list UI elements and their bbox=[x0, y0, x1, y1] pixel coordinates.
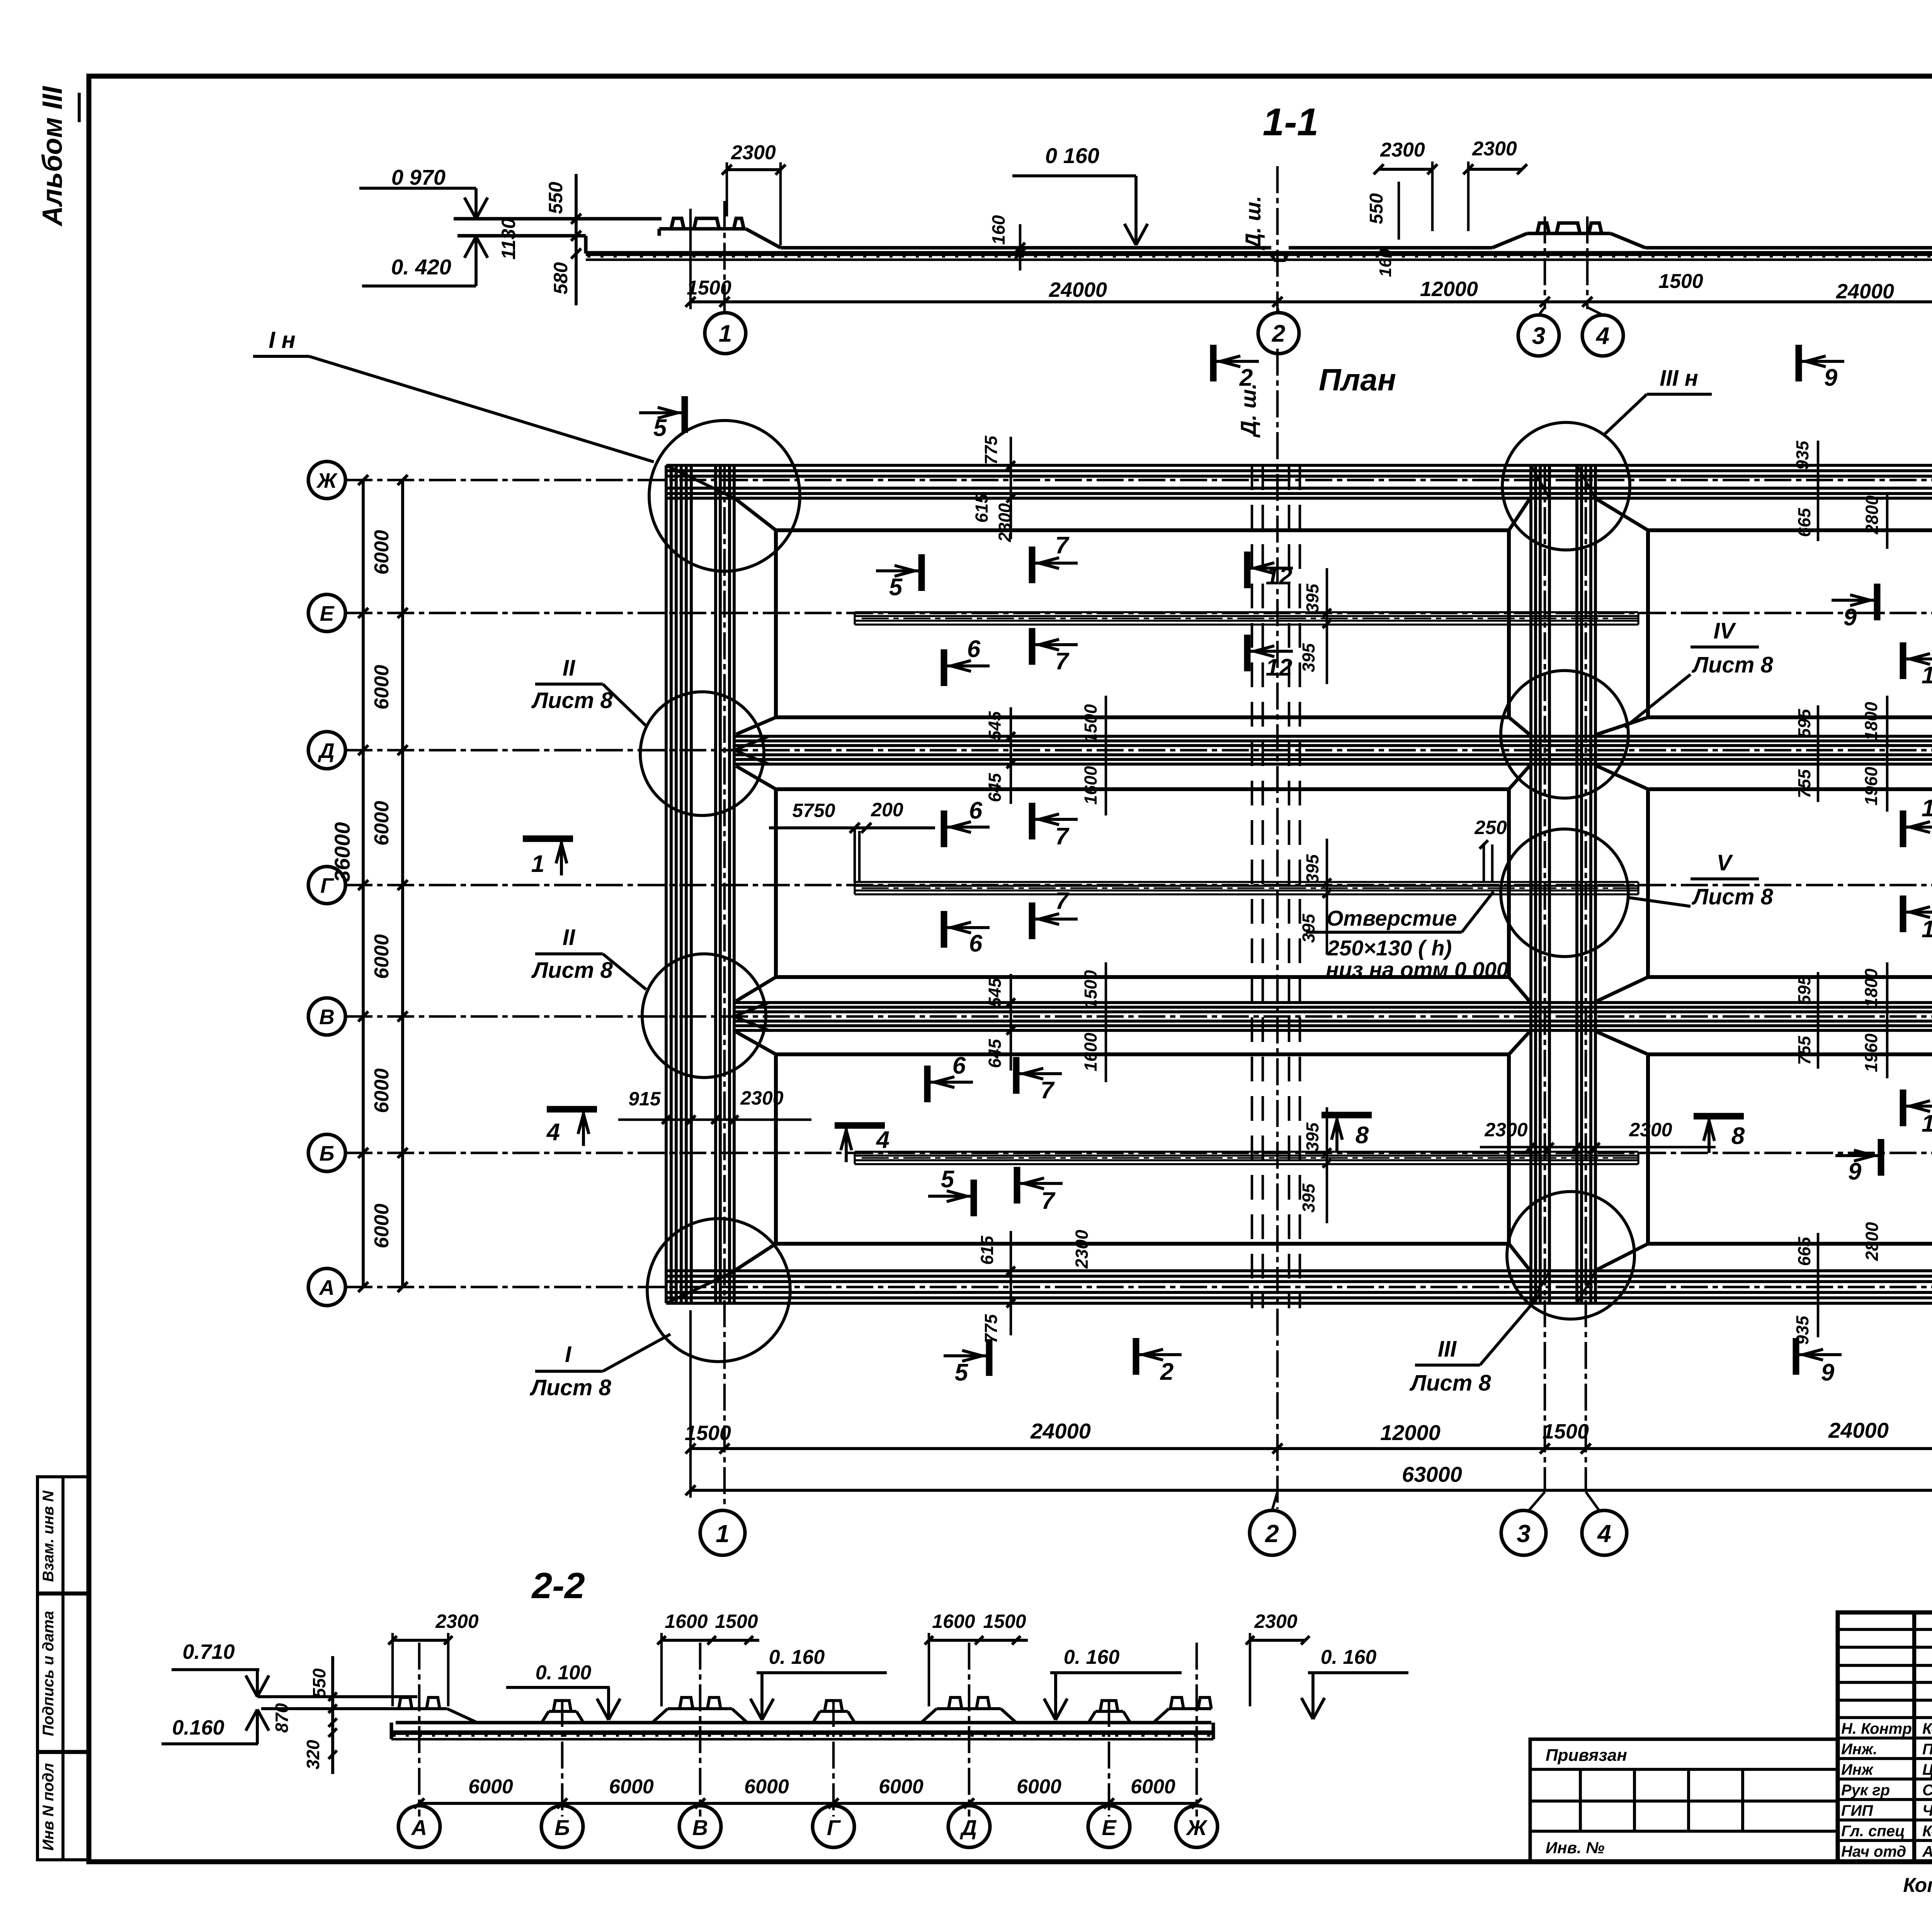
section mark 6 below partition E bbox=[941, 649, 947, 686]
svg-text:III н: III н bbox=[1660, 366, 1698, 391]
internal wall band row Д bbox=[734, 735, 1932, 738]
svg-text:395: 395 bbox=[1303, 1122, 1322, 1151]
svg-text:Альбом III: Альбом III bbox=[37, 85, 68, 226]
dim chain left 550 1130 580 bbox=[575, 174, 578, 305]
svg-text:0. 160: 0. 160 bbox=[769, 1646, 825, 1668]
detail circle node III bottom joint bbox=[1507, 1192, 1634, 1319]
chamber corridor 1 (Ж-Д left block) bbox=[776, 530, 1509, 717]
section 1-1 axis lines bbox=[723, 201, 726, 313]
svg-text:6000: 6000 bbox=[371, 1204, 393, 1248]
svg-text:Нач отд: Нач отд bbox=[1841, 1843, 1906, 1860]
settling tank chamber 3 (В-А right block) bbox=[1648, 1054, 1932, 1244]
svg-text:6000: 6000 bbox=[879, 1776, 923, 1798]
settling tank chamber 1 (Ж-Д right block) bbox=[1648, 530, 1932, 717]
svg-text:24000: 24000 bbox=[1828, 1418, 1889, 1442]
title block signature rows bbox=[1838, 1716, 1932, 1719]
svg-text:5750: 5750 bbox=[792, 800, 835, 821]
svg-text:Лист 8: Лист 8 bbox=[529, 1375, 611, 1400]
section 2-2 left level lines bbox=[257, 1695, 417, 1698]
corridor partition wall row Е bbox=[855, 611, 1638, 613]
section 1-1 floor slab bbox=[586, 251, 1932, 256]
profile at axis Б bbox=[542, 1711, 549, 1723]
svg-text:6000: 6000 bbox=[371, 530, 393, 575]
svg-text:615: 615 bbox=[972, 493, 992, 523]
svg-text:5: 5 bbox=[955, 1359, 969, 1386]
left outer wall band bbox=[665, 465, 668, 1303]
svg-text:1800: 1800 bbox=[1861, 702, 1881, 741]
section mark 5 bottom bbox=[986, 1339, 993, 1376]
svg-text:Инж.: Инж. bbox=[1841, 1741, 1878, 1758]
svg-text:II: II bbox=[563, 655, 576, 681]
svg-text:1500: 1500 bbox=[1081, 704, 1100, 743]
svg-text:775: 775 bbox=[981, 1314, 1001, 1343]
taper of wall В into left wall bbox=[734, 1003, 769, 1016]
svg-text:1130: 1130 bbox=[498, 218, 519, 260]
axis bubble 4 plan bbox=[1582, 1510, 1627, 1555]
chamber corridor 3 (В-А left block) bbox=[776, 1054, 1509, 1244]
svg-text:595: 595 bbox=[1794, 975, 1814, 1004]
svg-text:0. 160: 0. 160 bbox=[1064, 1646, 1120, 1668]
svg-text:550: 550 bbox=[545, 182, 566, 214]
svg-text:Инв N подл: Инв N подл bbox=[40, 1763, 57, 1851]
svg-text:В: В bbox=[319, 1005, 335, 1029]
svg-text:0.160: 0.160 bbox=[172, 1716, 224, 1739]
section mark 5 top bbox=[682, 396, 688, 433]
svg-text:935: 935 bbox=[1793, 440, 1812, 470]
svg-text:12: 12 bbox=[1266, 654, 1293, 681]
svg-text:665: 665 bbox=[1794, 1236, 1814, 1266]
svg-text:2300: 2300 bbox=[1072, 1230, 1092, 1269]
profile at axis Д bbox=[921, 1709, 937, 1723]
plan bottom dim line 1500 24000 12000 1500 24000 bbox=[690, 1447, 1932, 1450]
svg-text:1500: 1500 bbox=[687, 277, 731, 299]
svg-text:935: 935 bbox=[1793, 1315, 1812, 1345]
section mark 12 lower bbox=[1244, 635, 1251, 671]
profile at axis Ж bbox=[1153, 1709, 1169, 1723]
svg-text:2300: 2300 bbox=[1629, 1119, 1672, 1141]
svg-text:0. 160: 0. 160 bbox=[1321, 1646, 1377, 1668]
axis bubble 3 section bbox=[1518, 315, 1559, 356]
section mark 12 upper bbox=[1244, 552, 1251, 588]
svg-text:Инв. №: Инв. № bbox=[1546, 1839, 1604, 1857]
svg-text:IV: IV bbox=[1714, 618, 1736, 644]
svg-text:63000: 63000 bbox=[1402, 1462, 1462, 1486]
svg-text:Лист 8: Лист 8 bbox=[531, 958, 613, 983]
svg-text:8: 8 bbox=[1355, 1122, 1369, 1149]
corridor partition wall row Б bbox=[855, 1151, 1638, 1153]
section mark 9 bottom bbox=[1793, 1338, 1799, 1375]
section 2-2 slab bbox=[396, 1721, 1211, 1724]
svg-text:2: 2 bbox=[1272, 320, 1285, 347]
section mark 11 chamber 4 bbox=[1900, 642, 1906, 679]
svg-text:Ж: Ж bbox=[316, 468, 338, 492]
section mark 9 chamber 4 bbox=[1874, 584, 1881, 620]
svg-text:8: 8 bbox=[1731, 1123, 1745, 1149]
plan bottom dim line 63000 bbox=[690, 1489, 1932, 1492]
svg-text:2: 2 bbox=[1265, 1520, 1279, 1548]
profile at axis В bbox=[652, 1709, 668, 1723]
svg-text:645: 645 bbox=[985, 773, 1005, 802]
svg-text:3: 3 bbox=[1517, 1520, 1531, 1548]
svg-text:9: 9 bbox=[1824, 364, 1838, 391]
detail circle node II at row В left bbox=[642, 954, 766, 1078]
svg-text:6000: 6000 bbox=[371, 801, 393, 846]
svg-text:1: 1 bbox=[531, 851, 544, 877]
section mark 5 chamber 1 bbox=[918, 554, 925, 591]
deformation joint dashed lines bbox=[1251, 465, 1253, 1308]
svg-text:395: 395 bbox=[1299, 643, 1318, 672]
svg-text:6000: 6000 bbox=[609, 1776, 654, 1798]
extension lines plan bottom bbox=[689, 1310, 692, 1498]
section mark 1 left bbox=[523, 836, 573, 842]
svg-text:550: 550 bbox=[309, 1668, 329, 1698]
svg-text:6000: 6000 bbox=[1017, 1776, 1061, 1798]
svg-text:1500: 1500 bbox=[1081, 970, 1100, 1009]
svg-text:2300: 2300 bbox=[731, 141, 776, 164]
svg-text:7: 7 bbox=[1055, 888, 1070, 914]
svg-text:24000: 24000 bbox=[1049, 278, 1107, 301]
svg-text:Семенова: Семенова bbox=[1922, 1782, 1932, 1799]
svg-text:9: 9 bbox=[1848, 1158, 1862, 1185]
section mark 7 chamber 2 bbox=[1029, 803, 1036, 839]
section mark 11 chamber 6 bbox=[1900, 1090, 1906, 1126]
svg-text:7: 7 bbox=[1041, 1188, 1056, 1214]
svg-text:Лист 8: Лист 8 bbox=[1691, 884, 1773, 909]
svg-text:1600: 1600 bbox=[932, 1611, 975, 1632]
svg-text:5: 5 bbox=[889, 574, 903, 601]
svg-text:250×130 ( h): 250×130 ( h) bbox=[1327, 936, 1452, 960]
svg-text:0.710: 0.710 bbox=[182, 1640, 235, 1663]
detail circle node III-n top joint bbox=[1502, 422, 1630, 550]
right block left wall band at axis 4 bbox=[1575, 465, 1578, 1303]
svg-text:1500: 1500 bbox=[1543, 1420, 1589, 1443]
section mark 2 bottom bbox=[1133, 1338, 1139, 1375]
taper of wall Д into left wall bbox=[734, 736, 769, 750]
svg-text:11: 11 bbox=[1922, 795, 1932, 822]
section mark 9 top bbox=[1796, 345, 1802, 381]
section mark 5 below partition Б bbox=[971, 1180, 977, 1216]
svg-text:Козловичер: Козловичер bbox=[1922, 1720, 1932, 1737]
svg-text:1500: 1500 bbox=[1658, 270, 1703, 293]
svg-text:2300: 2300 bbox=[740, 1087, 783, 1109]
svg-text:1500: 1500 bbox=[983, 1611, 1026, 1632]
svg-text:Лист 8: Лист 8 bbox=[531, 688, 613, 713]
grid axis vertical 3 bbox=[1544, 465, 1546, 1490]
svg-text:0. 420: 0. 420 bbox=[391, 255, 451, 279]
svg-text:Б: Б bbox=[320, 1141, 335, 1165]
svg-text:0 970: 0 970 bbox=[391, 165, 446, 189]
svg-text:24000: 24000 bbox=[1030, 1419, 1091, 1443]
svg-text:Альтшуллер: Альтшуллер bbox=[1922, 1843, 1932, 1860]
section mark 11 chamber 5 upper bbox=[1900, 810, 1906, 847]
svg-text:6: 6 bbox=[952, 1052, 966, 1079]
svg-text:2-2: 2-2 bbox=[531, 1565, 585, 1606]
title block left table columns bbox=[1912, 1612, 1916, 1862]
svg-text:5: 5 bbox=[653, 415, 667, 441]
svg-text:А: А bbox=[318, 1275, 335, 1299]
detail circle node I bottom-left bbox=[647, 1219, 790, 1362]
svg-text:11: 11 bbox=[1922, 1110, 1932, 1137]
axis bubble 3 plan bbox=[1501, 1510, 1546, 1555]
grid axis vertical 1 bbox=[723, 465, 726, 1509]
section 2-2 axis bubbles bbox=[398, 1806, 440, 1847]
svg-text:665: 665 bbox=[1794, 507, 1814, 537]
section 1-1 expansion joint notch at axis 2 bbox=[1271, 254, 1288, 260]
svg-text:24000: 24000 bbox=[1836, 280, 1894, 303]
svg-text:Е: Е bbox=[320, 601, 335, 625]
svg-text:775: 775 bbox=[981, 435, 1001, 465]
left block right wall band at axis 3 bbox=[1529, 465, 1532, 1303]
tank outer wall top band bbox=[666, 464, 1932, 467]
svg-text:250: 250 bbox=[1474, 817, 1507, 838]
svg-text:6000: 6000 bbox=[371, 934, 393, 979]
title block outer box bbox=[1838, 1612, 1932, 1862]
svg-text:550: 550 bbox=[1366, 193, 1387, 224]
svg-text:0 160: 0 160 bbox=[1045, 143, 1099, 168]
svg-text:1-1: 1-1 bbox=[1263, 100, 1319, 144]
section mark 2 top bbox=[1210, 345, 1217, 381]
svg-text:Козловичер: Козловичер bbox=[1922, 1823, 1932, 1840]
svg-text:545: 545 bbox=[985, 711, 1005, 740]
svg-text:Лист 8: Лист 8 bbox=[1409, 1371, 1491, 1396]
svg-text:Инж: Инж bbox=[1841, 1761, 1874, 1778]
svg-text:Д. ш.: Д. ш. bbox=[1236, 383, 1260, 438]
svg-text:4: 4 bbox=[546, 1119, 560, 1146]
svg-text:Цветкова: Цветкова bbox=[1922, 1761, 1932, 1778]
detail circle node IV joint row Д bbox=[1501, 671, 1628, 798]
svg-text:9: 9 bbox=[1821, 1359, 1835, 1386]
grid axis lines horizontal bbox=[345, 479, 1932, 482]
svg-text:2300: 2300 bbox=[1380, 139, 1425, 161]
svg-text:2: 2 bbox=[1239, 364, 1253, 391]
svg-text:Рук гр: Рук гр bbox=[1841, 1782, 1890, 1799]
section 1-1 main dimension line bbox=[690, 300, 1932, 303]
svg-text:4: 4 bbox=[1595, 323, 1609, 349]
svg-text:755: 755 bbox=[1794, 1035, 1814, 1065]
axis bubble 1 plan bbox=[700, 1510, 745, 1555]
svg-text:2300: 2300 bbox=[1254, 1611, 1297, 1632]
tank outer wall bottom band bbox=[666, 1269, 1932, 1272]
svg-text:395: 395 bbox=[1299, 913, 1318, 943]
section mark 6 chamber 3 bbox=[924, 1066, 931, 1102]
svg-text:11: 11 bbox=[1922, 916, 1932, 943]
svg-text:Д. ш.: Д. ш. bbox=[1241, 196, 1265, 250]
svg-text:низ на отм 0 000: низ на отм 0 000 bbox=[1326, 957, 1509, 982]
svg-text:Подпись и дата: Подпись и дата bbox=[40, 1611, 57, 1736]
svg-text:320: 320 bbox=[303, 1740, 323, 1769]
svg-text:6000: 6000 bbox=[468, 1776, 513, 1798]
svg-text:5: 5 bbox=[941, 1166, 955, 1193]
settling tank chamber 2 (Д-В right block) bbox=[1648, 789, 1932, 977]
svg-text:1960: 1960 bbox=[1861, 767, 1881, 805]
left dim chain 6000s bbox=[401, 480, 404, 1287]
svg-text:645: 645 bbox=[985, 1039, 1005, 1068]
svg-text:Лист 8: Лист 8 bbox=[1691, 652, 1773, 678]
section mark 8 right of joint bbox=[1694, 1113, 1744, 1120]
svg-text:2300: 2300 bbox=[1472, 138, 1517, 160]
svg-text:Взам. инв N: Взам. инв N bbox=[40, 1490, 57, 1582]
left stamp boxes bbox=[37, 1477, 88, 1860]
svg-text:580: 580 bbox=[550, 262, 571, 295]
svg-text:6000: 6000 bbox=[371, 665, 393, 710]
svg-text:160: 160 bbox=[988, 215, 1009, 245]
svg-text:I: I bbox=[565, 1342, 572, 1367]
section 1-1 left wall edge lines bbox=[454, 217, 662, 220]
svg-text:6000: 6000 bbox=[1131, 1776, 1175, 1798]
title block revision rows bbox=[1838, 1628, 1932, 1631]
svg-text:755: 755 bbox=[1794, 769, 1814, 798]
svg-text:1960: 1960 bbox=[1861, 1033, 1881, 1072]
svg-text:А: А bbox=[411, 1815, 427, 1840]
svg-text:III: III bbox=[1438, 1336, 1457, 1362]
svg-text:2300: 2300 bbox=[1484, 1119, 1527, 1141]
svg-text:План: План bbox=[1319, 363, 1396, 397]
svg-text:915: 915 bbox=[628, 1088, 661, 1110]
section mark 7 below partition Г bbox=[1029, 902, 1036, 939]
svg-text:7: 7 bbox=[1055, 648, 1070, 675]
svg-text:Петропавловская: Петропавловская bbox=[1922, 1741, 1932, 1758]
profile at axis Г bbox=[813, 1711, 820, 1723]
section mark 6 chamber 2 bbox=[941, 810, 947, 847]
section 2-2 dim line 6000s bbox=[419, 1802, 1197, 1805]
svg-text:2: 2 bbox=[1160, 1359, 1173, 1385]
svg-text:Д: Д bbox=[960, 1815, 977, 1840]
svg-text:6000: 6000 bbox=[371, 1068, 393, 1113]
internal wall band row В bbox=[734, 1001, 1932, 1004]
svg-text:Чирков: Чирков bbox=[1922, 1802, 1932, 1819]
svg-text:395: 395 bbox=[1303, 854, 1322, 883]
svg-text:1600: 1600 bbox=[665, 1611, 707, 1632]
svg-text:Гл. спец: Гл. спец bbox=[1841, 1823, 1905, 1840]
left inner channel wall band bbox=[714, 465, 717, 1303]
section mark 11 chamber 5 lower bbox=[1900, 896, 1906, 932]
svg-text:545: 545 bbox=[985, 977, 1005, 1007]
svg-text:Б: Б bbox=[554, 1815, 570, 1840]
left dim chain 36000 bbox=[362, 480, 365, 1287]
svg-text:6: 6 bbox=[969, 797, 983, 824]
svg-text:615: 615 bbox=[977, 1235, 997, 1265]
svg-text:7: 7 bbox=[1041, 1077, 1055, 1104]
svg-text:V: V bbox=[1717, 850, 1733, 875]
detail circle node V joint bbox=[1501, 829, 1628, 957]
axis bubbles left bbox=[308, 461, 345, 499]
svg-text:36000: 36000 bbox=[330, 822, 354, 882]
svg-text:Е: Е bbox=[1102, 1815, 1117, 1840]
svg-text:В: В bbox=[692, 1815, 708, 1840]
svg-text:1: 1 bbox=[716, 1520, 730, 1548]
binding table bbox=[1530, 1739, 1838, 1861]
svg-text:9: 9 bbox=[1844, 604, 1857, 631]
axis bubble 4 section bbox=[1582, 315, 1623, 356]
svg-text:200: 200 bbox=[871, 799, 903, 821]
svg-text:160: 160 bbox=[1376, 249, 1395, 277]
axis bubble 2 plan bbox=[1250, 1510, 1294, 1555]
grid axis vertical 2 bbox=[1276, 349, 1279, 1509]
svg-text:12000: 12000 bbox=[1420, 278, 1478, 301]
svg-text:1600: 1600 bbox=[1081, 1033, 1100, 1071]
section mark 6 below partition Г bbox=[941, 911, 947, 948]
svg-text:Г: Г bbox=[827, 1815, 841, 1840]
section mark 7 chamber 3 bbox=[1013, 1057, 1020, 1094]
svg-text:3: 3 bbox=[1532, 323, 1545, 349]
svg-text:Копир Лаврухина: Копир Лаврухина bbox=[1903, 1874, 1932, 1897]
svg-text:595: 595 bbox=[1794, 708, 1814, 738]
section mark 4 left bbox=[547, 1106, 597, 1113]
grid axis vertical 4 bbox=[1585, 465, 1587, 1490]
svg-text:2800: 2800 bbox=[1862, 495, 1882, 535]
svg-text:7: 7 bbox=[1055, 532, 1070, 559]
svg-text:I н: I н bbox=[269, 327, 296, 353]
svg-text:12: 12 bbox=[1266, 563, 1293, 590]
svg-text:1800: 1800 bbox=[1861, 969, 1881, 1007]
corridor partition wall row Г bbox=[855, 881, 1638, 883]
detail circle node II at row Д left bbox=[640, 692, 764, 815]
svg-text:870: 870 bbox=[272, 1703, 292, 1733]
svg-text:Привязан: Привязан bbox=[1546, 1746, 1627, 1765]
section mark 8 left of joint bbox=[1321, 1112, 1372, 1119]
svg-text:4: 4 bbox=[1597, 1520, 1611, 1548]
svg-text:6: 6 bbox=[967, 636, 981, 662]
section 1-1 wall profile at axes 3-4 bbox=[1492, 233, 1527, 248]
svg-text:12000: 12000 bbox=[1380, 1420, 1440, 1445]
svg-text:11: 11 bbox=[1922, 662, 1932, 689]
svg-text:0. 100: 0. 100 bbox=[536, 1662, 592, 1684]
section mark 4 inner bbox=[835, 1122, 885, 1129]
detail circle node I-n top-left bbox=[649, 421, 800, 571]
svg-text:2800: 2800 bbox=[1862, 1222, 1882, 1261]
profile at axis А bbox=[391, 1707, 447, 1710]
section mark 7 below partition E bbox=[1029, 628, 1036, 665]
section 1-1 wall profile at axis 1 bbox=[657, 229, 661, 236]
section mark 9 chamber 6 bbox=[1878, 1139, 1884, 1176]
svg-text:ГИП: ГИП bbox=[1841, 1802, 1873, 1819]
svg-text:Ж: Ж bbox=[1185, 1815, 1208, 1840]
chamber corridor 2 (Д-В left block) bbox=[776, 789, 1509, 977]
axis bubble 2 section bbox=[1258, 313, 1299, 354]
svg-text:Н. Контр.: Н. Контр. bbox=[1841, 1720, 1916, 1737]
section 2-2 axis lines bbox=[418, 1643, 421, 1817]
svg-text:1: 1 bbox=[719, 320, 732, 347]
svg-text:395: 395 bbox=[1299, 1183, 1318, 1212]
svg-text:1500: 1500 bbox=[715, 1611, 758, 1632]
corner mitre diagonals bbox=[666, 465, 734, 498]
svg-text:2300: 2300 bbox=[435, 1611, 478, 1632]
svg-text:6: 6 bbox=[969, 930, 983, 957]
axis bubble 1 section bbox=[705, 313, 746, 354]
section mark 7 chamber 1 bbox=[1029, 546, 1036, 583]
svg-text:7: 7 bbox=[1055, 823, 1070, 850]
dim chain 2-2 550 870 320 bbox=[331, 1656, 334, 1774]
svg-text:Отверстие: Отверстие bbox=[1327, 906, 1457, 930]
dim 160 slab thickness bbox=[1019, 224, 1022, 271]
section mark 7 below partition Б bbox=[1014, 1167, 1020, 1204]
svg-text:II: II bbox=[563, 925, 576, 950]
svg-text:Д: Д bbox=[318, 739, 335, 763]
svg-text:1600: 1600 bbox=[1081, 766, 1100, 805]
svg-text:6000: 6000 bbox=[744, 1776, 789, 1798]
profile at axis Е bbox=[1088, 1711, 1095, 1723]
svg-text:4: 4 bbox=[876, 1127, 889, 1153]
svg-text:395: 395 bbox=[1303, 583, 1322, 613]
